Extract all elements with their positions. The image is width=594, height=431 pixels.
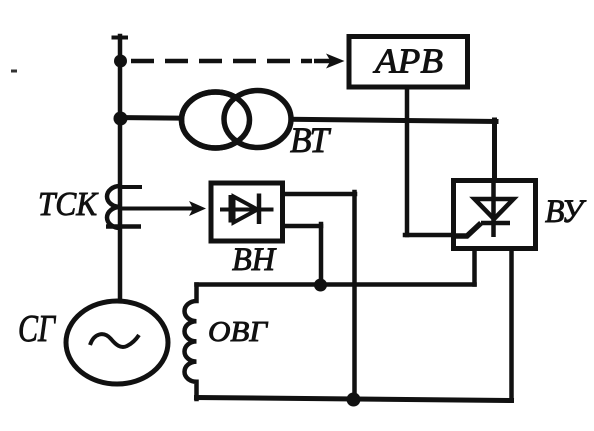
svg-text:СГ: СГ [18, 308, 56, 350]
svg-text:ВУ: ВУ [545, 194, 587, 230]
svg-text:ВТ: ВТ [290, 120, 332, 160]
svg-text:ТСК: ТСК [38, 186, 99, 223]
svg-text:ОВГ: ОВГ [208, 316, 269, 348]
svg-text:ВН: ВН [232, 242, 277, 278]
svg-text:АРВ: АРВ [373, 42, 443, 81]
